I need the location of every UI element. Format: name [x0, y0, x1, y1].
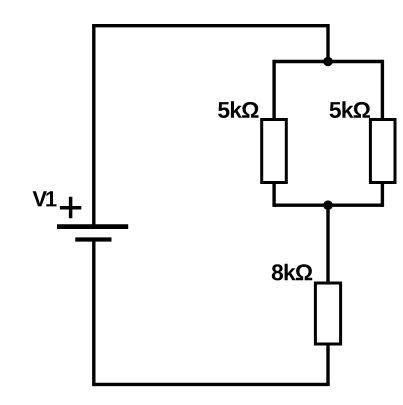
- wire: parallel-section top rail: [274, 60, 382, 63]
- node A junction dot: [323, 57, 333, 67]
- label 5kOhm left: [218, 101, 258, 118]
- battery V1 positive plate (long): [57, 224, 128, 229]
- wire: bottom horizontal rail: [94, 383, 330, 386]
- wire: node B down to 8k resistor: [326, 205, 329, 282]
- label 5kOhm right: [330, 101, 370, 118]
- resistor R3 body (8k): [315, 283, 340, 344]
- plus polarity mark: [60, 197, 81, 219]
- wire: left vertical from battery top plate up to top rail: [92, 26, 95, 225]
- wire: right branch bottom lead: [381, 184, 384, 207]
- wire: drop from top rail to node A: [326, 24, 329, 62]
- wire: parallel-section bottom rail: [274, 203, 382, 206]
- wire: left branch bottom lead: [272, 184, 275, 207]
- battery V1 negative plate (short): [75, 237, 111, 241]
- node B junction dot: [323, 200, 333, 210]
- wire: left vertical from battery bottom plate down to bottom rail: [92, 240, 95, 386]
- wire: top horizontal rail: [92, 24, 328, 27]
- wire: left branch top lead: [272, 60, 275, 119]
- label 8kOhm: [272, 264, 312, 281]
- wire: right branch top lead: [381, 60, 384, 119]
- wire: 8k resistor down to bottom rail: [326, 345, 329, 385]
- resistor R2 body (right 5k): [370, 120, 395, 183]
- label V1: [33, 191, 57, 206]
- resistor R1 body (left 5k): [262, 120, 287, 183]
